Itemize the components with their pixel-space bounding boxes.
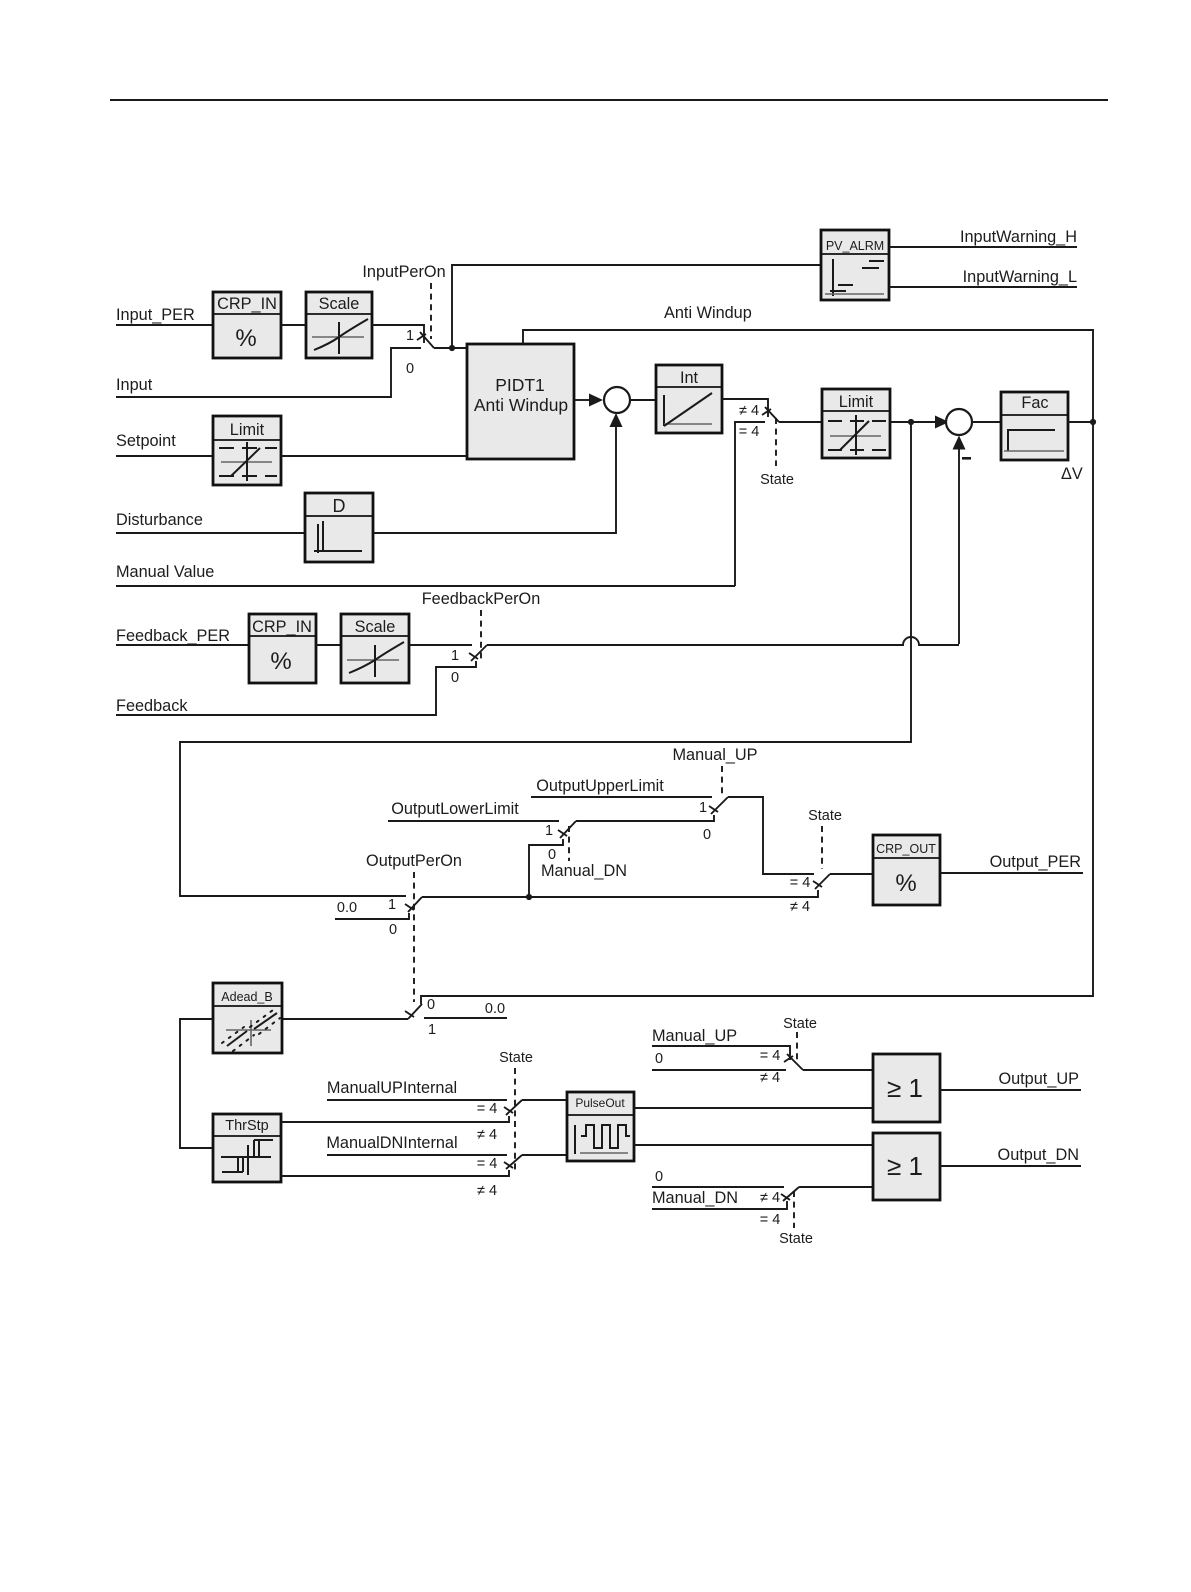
svg-text:1: 1 (406, 328, 414, 344)
wire InputWarning_L (889, 286, 1077, 288)
block Fac (1001, 392, 1068, 460)
block PIDT1 Anti Windup (467, 344, 574, 459)
wire ThrStp upper output to UP switch (281, 1116, 509, 1122)
svg-text:OutputLowerLimit: OutputLowerLimit (391, 800, 519, 818)
control line State (dashed) (821, 826, 823, 869)
svg-text:≠ 4: ≠ 4 (760, 1190, 780, 1206)
svg-text:CRP_IN: CRP_IN (217, 295, 277, 313)
control line State (dashed, DN) (793, 1191, 795, 1228)
svg-text:OutputUpperLimit: OutputUpperLimit (536, 777, 664, 795)
svg-text:= 4: = 4 (790, 875, 811, 891)
wire 0 input (DN) (652, 1186, 784, 1188)
wire Feedback_PER to CRP_IN2 (116, 644, 249, 646)
label minus (962, 457, 971, 460)
control line Manual_DN (dashed) (568, 826, 570, 861)
block CRP_IN (feedback) (249, 614, 316, 683)
wire Adead_B / ThrStp input connector (180, 1019, 213, 1148)
svg-text:PIDT1: PIDT1 (495, 375, 545, 395)
arrow D into sum1 (610, 413, 623, 427)
svg-text:≠ 4: ≠ 4 (790, 899, 810, 915)
svg-text:1: 1 (428, 1022, 436, 1038)
wire sum2 to Fac (972, 421, 1001, 423)
wire sum1 to Int (630, 399, 656, 401)
top rule (110, 99, 1108, 101)
svg-text:= 4: = 4 (739, 424, 760, 440)
svg-text:Scale: Scale (355, 618, 396, 636)
svg-text:≠ 4: ≠ 4 (739, 403, 759, 419)
wire ThrStp lower output to DN switch (281, 1170, 509, 1176)
svg-text:InputWarning_H: InputWarning_H (960, 228, 1077, 246)
svg-text:CRP_IN: CRP_IN (252, 618, 312, 636)
svg-text:0: 0 (548, 847, 556, 863)
block Limit (output velocity) (822, 389, 890, 458)
svg-text:Manual_DN: Manual_DN (541, 862, 627, 880)
svg-text:Limit: Limit (230, 421, 265, 439)
switch State CRP_OUT lever (815, 874, 830, 889)
block ThrStp (213, 1114, 281, 1182)
svg-text:ΔV: ΔV (1061, 465, 1083, 483)
svg-text:Output_DN: Output_DN (998, 1146, 1079, 1164)
switch FeedbackPerOn lever (471, 645, 487, 661)
svg-text:CRP_OUT: CRP_OUT (876, 842, 936, 856)
svg-text:0.0: 0.0 (337, 900, 357, 916)
svg-text:0: 0 (406, 361, 414, 377)
wire DN switch to PulseOut (522, 1154, 567, 1156)
svg-text:Manual Value: Manual Value (116, 563, 214, 581)
wire main output line to State switch (422, 890, 818, 897)
wire PulseOut lower output to OR2 (634, 1144, 873, 1146)
svg-text:InputWarning_L: InputWarning_L (963, 268, 1077, 286)
svg-text:Input_PER: Input_PER (116, 306, 195, 324)
block D (305, 493, 373, 562)
switch OutputLowerLimit lever (560, 821, 576, 838)
wire Manual Value riser to switch (735, 422, 765, 586)
arrow PIDT1 into sum1 (589, 394, 603, 407)
junction dot input node (449, 345, 455, 351)
svg-text:OutputPerOn: OutputPerOn (366, 852, 462, 870)
svg-text:≠ 4: ≠ 4 (760, 1070, 780, 1086)
gate OR2 (873, 1133, 940, 1200)
svg-text:0: 0 (655, 1051, 663, 1067)
switch Manual_UP out lever (787, 1054, 803, 1070)
svg-text:Output_UP: Output_UP (998, 1070, 1079, 1088)
block Limit (setpoint) (213, 416, 281, 485)
wire PIDT1 to sum1 arrow (574, 399, 590, 401)
block PV_ALRM (821, 230, 889, 300)
wire Disturbance to D (116, 532, 305, 534)
svg-text:0: 0 (451, 670, 459, 686)
svg-text:Feedback_PER: Feedback_PER (116, 627, 230, 645)
svg-text:InputPerOn: InputPerOn (362, 263, 445, 281)
summing junction 1 (604, 387, 630, 413)
control line State (dashed) (796, 1032, 798, 1062)
svg-text:Setpoint: Setpoint (116, 432, 176, 450)
wire Scale to switch input 1 (372, 325, 424, 343)
svg-text:ManualUPInternal: ManualUPInternal (327, 1079, 457, 1097)
wire feedback minus into sum2 (958, 449, 960, 644)
svg-text:%: % (235, 325, 256, 352)
svg-text:0: 0 (427, 997, 435, 1013)
svg-text:FeedbackPerOn: FeedbackPerOn (422, 590, 541, 608)
block Int (656, 365, 722, 433)
svg-text:= 4: = 4 (760, 1212, 781, 1228)
wire CRP_IN to Scale (281, 324, 306, 326)
svg-text:0: 0 (655, 1169, 663, 1185)
wire Manual_UP input (652, 1046, 790, 1060)
svg-text:PulseOut: PulseOut (575, 1096, 625, 1110)
wire Int output to state switch (722, 399, 768, 417)
svg-text:Limit: Limit (839, 393, 874, 411)
wire Limit2 to sum2 (890, 421, 936, 423)
wire ManualUPInternal (327, 1099, 507, 1101)
control line State (dashed) (775, 418, 777, 466)
svg-text:Int: Int (680, 369, 699, 387)
block CRP_IN (input) (213, 292, 281, 358)
wire Manual_DN input (652, 1201, 787, 1209)
wire velocity branch down to lower chain (180, 422, 911, 896)
svg-text:≠ 4: ≠ 4 (477, 1127, 497, 1143)
wire switch to Adead_B input (283, 1018, 408, 1020)
svg-text:Fac: Fac (1021, 394, 1048, 412)
wire delta-V down right side (421, 422, 1093, 1004)
svg-text:≥ 1: ≥ 1 (887, 1073, 923, 1103)
summing junction 2 (946, 409, 972, 435)
wire 0.0 input (335, 913, 409, 919)
wire lower-limit switch output to upper switch 0 input (576, 815, 714, 821)
control line FeedbackPerOn (dashed) (480, 610, 482, 659)
svg-text:D: D (333, 496, 346, 516)
svg-text:= 4: = 4 (477, 1156, 498, 1172)
svg-text:State: State (499, 1050, 533, 1066)
svg-text:ThrStp: ThrStp (225, 1118, 269, 1134)
block Scale (feedback) (341, 614, 409, 683)
wire switch to OR1 (803, 1069, 873, 1071)
svg-text:PV_ALRM: PV_ALRM (826, 239, 884, 253)
wire feedback to sum2 (with hop over velocity line) (487, 637, 959, 645)
svg-text:1: 1 (388, 897, 396, 913)
gate OR1 (873, 1054, 940, 1122)
wire Fac to output node (1068, 421, 1093, 423)
wire switch to Limit2 (779, 421, 822, 423)
wire OutputLowerLimit (388, 820, 559, 822)
svg-text:0: 0 (389, 922, 397, 938)
svg-text:1: 1 (545, 823, 553, 839)
wire upper switch output down to State switch (728, 797, 814, 874)
wire Input_PER to CRP_IN (116, 324, 213, 326)
wire Feedback to switch input 0 (116, 661, 476, 715)
block Adead_B (213, 983, 282, 1053)
junction dot main line (526, 894, 532, 900)
arrow feedback into sum2 (953, 436, 966, 450)
svg-text:≥ 1: ≥ 1 (887, 1151, 923, 1181)
svg-text:Anti Windup: Anti Windup (664, 304, 752, 322)
svg-text:Anti Windup: Anti Windup (474, 395, 568, 415)
wire 0.0 lower input (424, 1017, 507, 1019)
wire OR2 to Output_DN (940, 1165, 1081, 1167)
svg-text:Manual_UP: Manual_UP (672, 746, 757, 764)
svg-text:State: State (808, 808, 842, 824)
svg-text:= 4: = 4 (760, 1048, 781, 1064)
wire UP switch to PulseOut (522, 1099, 567, 1101)
control line State internal (dashed) (514, 1068, 516, 1172)
switch UP lever (506, 1100, 522, 1115)
svg-text:≠ 4: ≠ 4 (477, 1183, 497, 1199)
svg-text:State: State (783, 1016, 817, 1032)
svg-text:Scale: Scale (319, 295, 360, 313)
control line InputPerOn (dashed) (430, 283, 432, 339)
wire switch common to PIDT1 (434, 347, 467, 349)
switch InputPerOn lever (420, 332, 434, 348)
wire ManualDNInternal (327, 1154, 507, 1156)
wire D output to sum1 (373, 427, 616, 533)
wire 0 input (652, 1069, 786, 1071)
wire Manual Value (116, 585, 735, 587)
wire PulseOut upper output to OR1 (634, 1107, 873, 1109)
wire 0-input of lower-limit switch from main node (529, 839, 563, 897)
wire Input to switch input 0 (116, 348, 421, 397)
svg-text:Manual_DN: Manual_DN (652, 1189, 738, 1207)
svg-text:Output_PER: Output_PER (990, 853, 1081, 871)
control line OutputPerOn (dashed) (413, 872, 415, 1002)
wire Setpoint to Limit (116, 455, 213, 457)
svg-text:0: 0 (703, 827, 711, 843)
wire Scale2 to feedback switch input 1 (409, 644, 472, 646)
svg-text:1: 1 (699, 800, 707, 816)
block Scale (input) (306, 292, 372, 358)
svg-text:0.0: 0.0 (485, 1001, 505, 1017)
switch State (Int/ManualValue) lever (765, 407, 779, 422)
junction dot Limit2 output (908, 419, 914, 425)
arrow into sum2 (935, 416, 949, 429)
wire OR1 to Output_UP (940, 1089, 1081, 1091)
switch Manual_DN out lever (783, 1187, 799, 1201)
switch DN lever (506, 1155, 522, 1169)
svg-text:Adead_B: Adead_B (221, 990, 272, 1004)
svg-text:Disturbance: Disturbance (116, 511, 203, 529)
wire CRP_OUT to Output_PER (940, 872, 1083, 874)
svg-text:Feedback: Feedback (116, 697, 188, 715)
switch OutputPerOn lever (408, 897, 422, 912)
wire OutputUpperLimit (531, 796, 712, 798)
wire CRP_IN2 to Scale2 (316, 644, 341, 646)
svg-text:1: 1 (451, 648, 459, 664)
junction dot delta-V node (1090, 419, 1096, 425)
svg-text:State: State (779, 1231, 813, 1247)
switch Adead source lever (408, 1004, 422, 1019)
svg-text:State: State (760, 472, 794, 488)
wire switch to OR2 (799, 1186, 873, 1188)
svg-text:%: % (270, 648, 291, 675)
wire Limit to PIDT1 (281, 455, 467, 457)
svg-text:%: % (895, 870, 916, 897)
block CRP_OUT (873, 835, 940, 905)
svg-text:ManualDNInternal: ManualDNInternal (326, 1134, 457, 1152)
switch Manual_UP lever (711, 797, 728, 814)
svg-text:Manual_UP: Manual_UP (652, 1027, 737, 1045)
wire anti-windup feedback (523, 330, 1093, 422)
block PulseOut (567, 1092, 634, 1161)
wire InputWarning_H (889, 246, 1077, 248)
svg-text:Input: Input (116, 376, 153, 394)
wire State switch to CRP_OUT (830, 873, 873, 875)
control line Manual_UP (dashed) (721, 766, 723, 795)
wire input node up to PV_ALRM (452, 265, 821, 348)
svg-text:= 4: = 4 (477, 1101, 498, 1117)
